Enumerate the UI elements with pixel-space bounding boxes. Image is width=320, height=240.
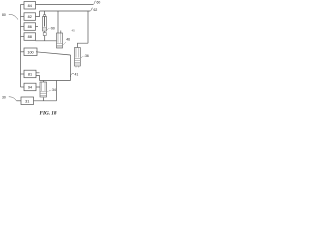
- box 81: [24, 70, 36, 78]
- syringe 42 cap: [43, 15, 46, 17]
- node 36 label leader: [81, 56, 85, 58]
- svg-text:81: 81: [28, 73, 32, 77]
- box 31: [21, 97, 34, 105]
- svg-text:45: 45: [72, 29, 76, 33]
- svg-text:94: 94: [28, 86, 32, 90]
- svg-text:62: 62: [94, 8, 98, 12]
- box 94: [24, 83, 36, 91]
- svg-text:41: 41: [75, 73, 79, 77]
- node 60 label leader: [93, 1, 96, 5]
- wire: rail 62: [40, 10, 91, 12]
- box 88: [24, 33, 36, 41]
- wire: rail 62 drop to syringe 44: [57, 11, 59, 33]
- wire: rail 62 right drop: [87, 11, 89, 43]
- node 90 label leader: [47, 28, 51, 30]
- wire: manifold drop to syringe 32: [43, 81, 45, 83]
- svg-text:80: 80: [2, 13, 6, 17]
- node 41 label leader: [71, 74, 75, 78]
- wire: bus to box 100: [21, 51, 25, 53]
- node 80 label leader: [9, 14, 18, 19]
- syringe 32: [40, 82, 47, 97]
- svg-text:46: 46: [66, 38, 70, 42]
- wire: bus to box 84: [21, 4, 25, 6]
- svg-text:31: 31: [25, 99, 29, 103]
- svg-text:86: 86: [28, 25, 32, 29]
- svg-text:84: 84: [28, 4, 32, 8]
- wire: box 94 to syringe 32: [36, 86, 40, 88]
- svg-text:30: 30: [2, 96, 6, 100]
- syringe 44: [57, 33, 63, 48]
- wire: bus to box 94: [21, 86, 25, 88]
- syringe 36 bottom marks: [76, 66, 79, 68]
- wire: down pipe 41: [70, 55, 72, 81]
- wire: bus to box 86: [21, 26, 25, 28]
- wire: bottom manifold line: [40, 80, 71, 82]
- wire: drain riser: [56, 81, 58, 101]
- wire: bus to box 88: [21, 36, 25, 38]
- wire: top rail 60: [36, 4, 94, 6]
- box 86: [24, 23, 36, 31]
- box 84: [24, 2, 36, 10]
- wire: leader to box 31: [17, 100, 22, 102]
- svg-text:100: 100: [27, 50, 33, 54]
- node 30 label leader: [9, 97, 17, 101]
- syringe 42: [43, 17, 47, 32]
- node 62 label leader: [90, 8, 93, 11]
- wire: box 81 double line right: [36, 73, 40, 81]
- svg-text:60: 60: [97, 1, 101, 5]
- wire: drain line bottom: [34, 100, 57, 102]
- node 46 label leader: [63, 42, 66, 45]
- wire: bus to box 81: [21, 73, 25, 75]
- node 34 label leader: [48, 90, 52, 92]
- syringe 36: [75, 48, 81, 67]
- box 82: [24, 13, 36, 20]
- wire: box 100 to down pipe: [36, 52, 71, 55]
- wire: right drop to syringe 36: [78, 43, 89, 47]
- svg-text:36: 36: [85, 54, 89, 58]
- svg-text:88: 88: [28, 35, 32, 39]
- svg-text:FIG. 18: FIG. 18: [39, 111, 56, 117]
- valve 92: [43, 33, 46, 36]
- svg-text:34: 34: [52, 88, 56, 92]
- wire: box 86 right stub: [36, 26, 39, 28]
- wire: syringe 32 drain: [43, 98, 45, 101]
- svg-text:90: 90: [51, 27, 55, 31]
- wire: middle horizontal to pump 44: [36, 40, 57, 42]
- wire: box 82 to rail 62: [36, 11, 40, 17]
- wire: bus to box 82: [21, 16, 25, 18]
- box 100: [24, 48, 37, 56]
- syringe 44 inlet nub: [60, 31, 62, 34]
- svg-text:82: 82: [28, 15, 32, 19]
- wire: rail 62 drop to syringe 42: [44, 11, 46, 15]
- wire: left vertical bus: [20, 5, 22, 88]
